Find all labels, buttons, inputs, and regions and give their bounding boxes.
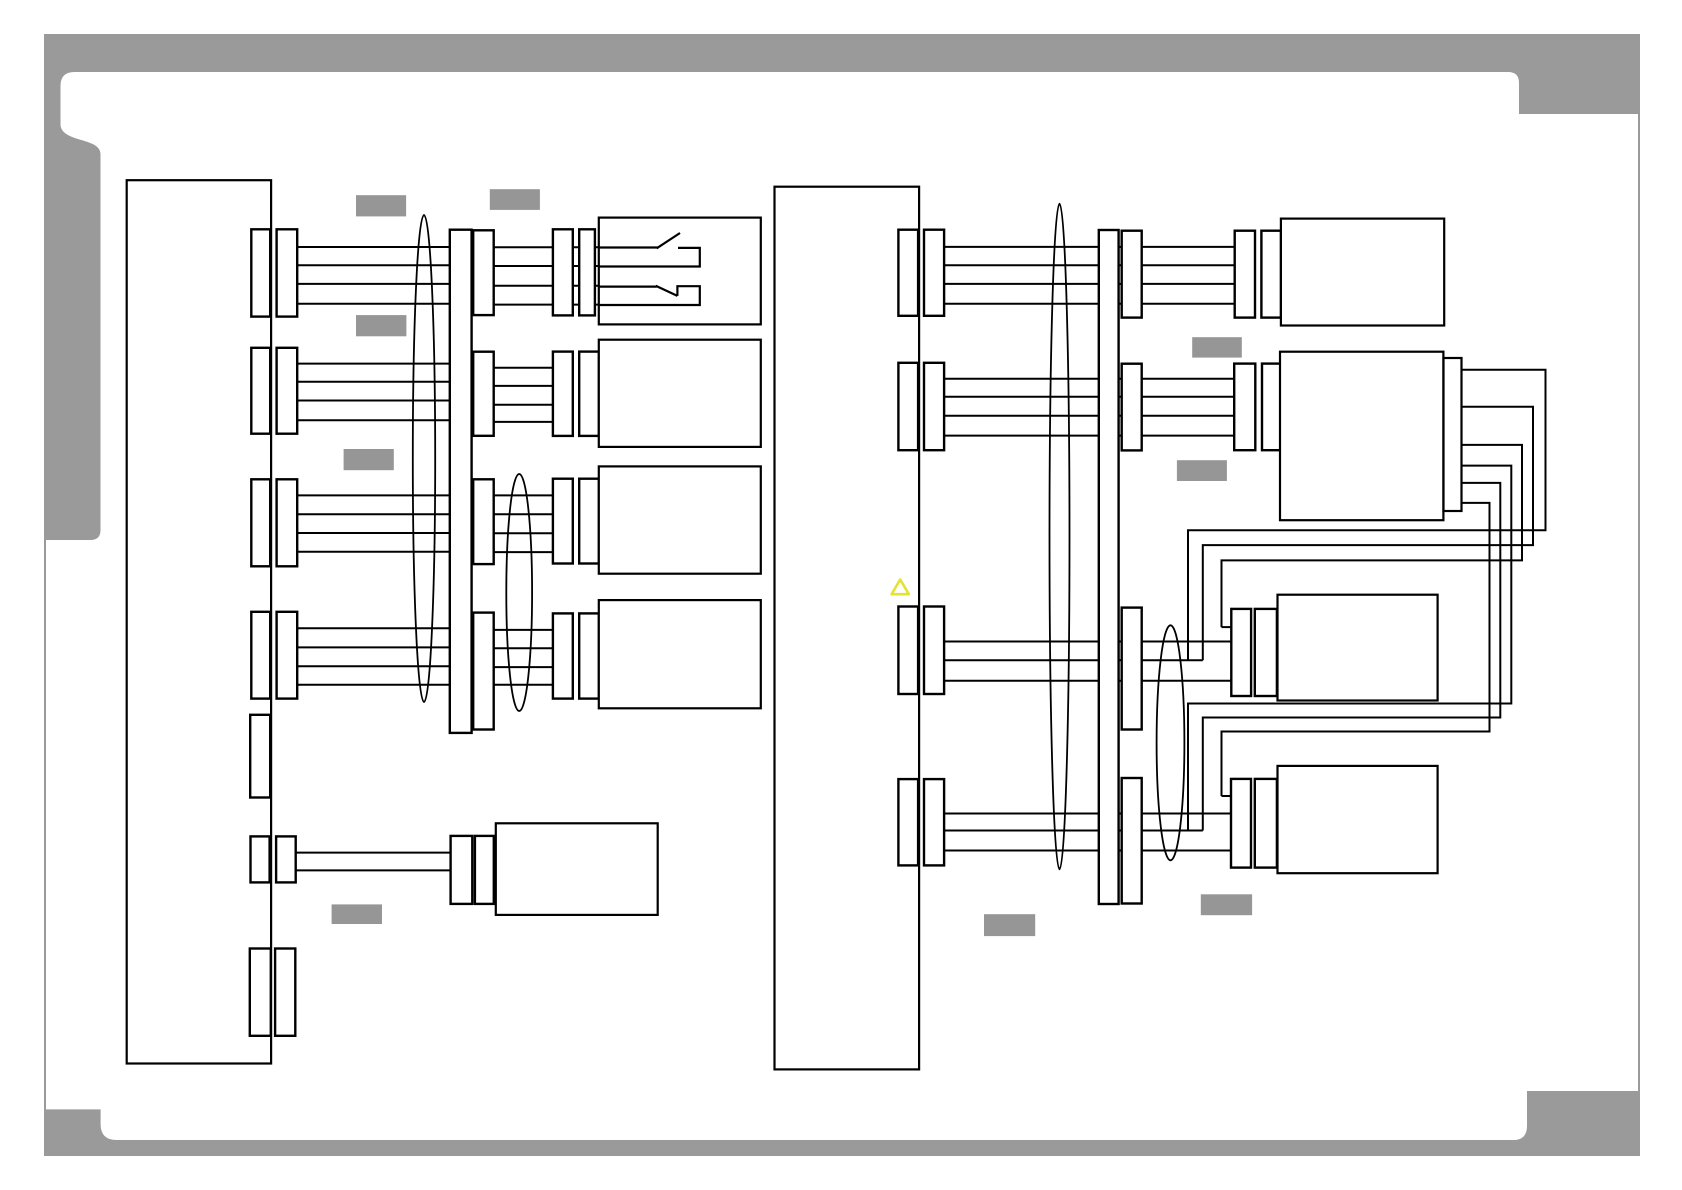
device connector pair row 2	[553, 352, 599, 436]
wire bundle row 2 (PCB to harness)	[297, 364, 473, 421]
net 1 (box B pin 1 to row C)	[1188, 370, 1546, 661]
PCB edge connector pair row 1	[251, 229, 297, 316]
PCB edge connector pair row B (right)	[898, 363, 944, 450]
label 2 (redacted text)	[490, 189, 540, 210]
harness connector row 4 (left)	[473, 613, 494, 730]
PCB edge connector pair row C (right)	[898, 607, 944, 695]
switch symbol (headphone jack) in box row 1	[599, 233, 700, 305]
device connector pair row C (right)	[1231, 609, 1277, 696]
wire bundle row C (right)	[944, 627, 1231, 681]
label 4 (redacted text)	[344, 449, 394, 470]
label 1 (redacted text)	[356, 195, 406, 216]
harness connector row 1 (left)	[473, 230, 494, 315]
PCB edge connector pair row A (right)	[898, 230, 944, 316]
net 2 (box B pin 2 to row C)	[1203, 407, 1533, 661]
wire bundle row 3 (harness to device)	[473, 495, 555, 552]
PCB edge connector pair row D (right)	[898, 779, 944, 865]
cable bundle ellipse (left small)	[506, 474, 532, 711]
harness connector row 3 (left)	[473, 479, 494, 564]
device connector pair row D (right)	[1231, 779, 1277, 868]
device box row A (right)	[1281, 219, 1444, 326]
device box row 5	[496, 823, 658, 915]
net 3 (box B pin 3 to conn C)	[1222, 445, 1523, 627]
device connector pair row A (right)	[1235, 231, 1281, 318]
label 6 (redacted text)	[984, 914, 1035, 936]
PCB edge connector pair row 2	[251, 348, 297, 434]
PCB edge connector pair row 5	[251, 836, 296, 882]
main PCB block (right)	[775, 187, 920, 1070]
cable bundle ellipse (right large)	[1050, 204, 1070, 870]
device box row 2	[599, 340, 761, 447]
harness connector row C (right)	[1122, 608, 1142, 730]
net 6 (box B pin 6 to conn D)	[1222, 503, 1490, 796]
net 5 (box B pin 5 to row D)	[1203, 483, 1501, 831]
harness bar (right)	[1099, 230, 1119, 904]
harness connector row B (right)	[1122, 364, 1142, 451]
wire bundle row B (right)	[944, 379, 1236, 436]
net 4 (box B pin 4 to row D)	[1188, 466, 1511, 831]
harness connector row 2 (left)	[473, 352, 494, 436]
wire bundle row 4 (harness to device)	[473, 630, 555, 685]
device box row 1	[599, 218, 761, 325]
wire pair row 5	[296, 853, 451, 871]
device box row B (right)	[1280, 352, 1443, 521]
wire bundle row 1 (harness to device)	[473, 247, 599, 304]
wire bundle row 3 (PCB to harness)	[297, 495, 473, 551]
cable bundle ellipse (left large)	[413, 215, 435, 702]
label 7 (redacted text)	[1192, 337, 1242, 357]
device connector pair row B (right)	[1234, 364, 1281, 451]
cable bundle ellipse (right small)	[1157, 625, 1185, 860]
device connector pair row 3	[553, 479, 599, 564]
PCB edge connector (unused)	[250, 715, 270, 798]
PCB edge connector pair row 4	[251, 612, 297, 699]
device box row B output connector	[1444, 358, 1462, 511]
device box row 4	[599, 600, 761, 708]
label 3 (redacted text)	[356, 315, 406, 336]
device box row C (right)	[1278, 595, 1438, 701]
label 9 (redacted text)	[1201, 894, 1252, 915]
device connector pair row 4	[553, 613, 599, 698]
wire bundle row 4 (PCB to harness)	[297, 628, 473, 685]
PCB edge connector pair row 3	[251, 479, 297, 566]
wire bundle row 2 (harness to device)	[473, 368, 555, 422]
main PCB block (left)	[127, 180, 271, 1063]
label 5 (redacted text)	[332, 904, 382, 924]
harness bar (left)	[450, 230, 472, 733]
harness connector row A (right)	[1122, 231, 1142, 318]
wire bundle row 1 (PCB to harness)	[297, 247, 473, 304]
wire bundle row D (right)	[944, 796, 1231, 851]
PCB edge connector pair row 6	[250, 949, 296, 1036]
device connector pair row 5	[451, 836, 494, 904]
label 8 (redacted text)	[1177, 460, 1227, 481]
warning triangle	[892, 580, 909, 595]
wire bundle row A (right)	[944, 247, 1236, 304]
device connector pair row 1	[553, 229, 595, 315]
device box row 3	[599, 466, 761, 573]
device box row D (right)	[1278, 766, 1438, 873]
harness connector row D (right)	[1122, 778, 1142, 904]
